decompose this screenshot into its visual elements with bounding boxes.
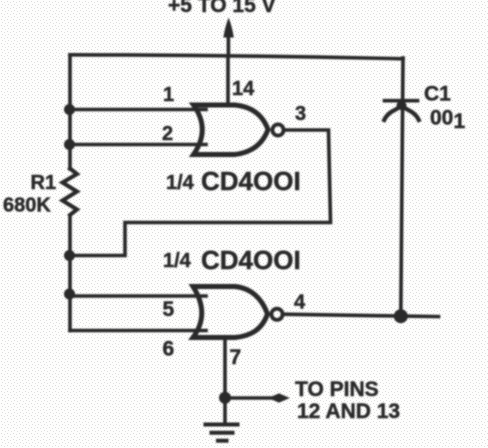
capacitor C1 bottom plate bbox=[384, 106, 419, 120]
svg-text:CD4OOI: CD4OOI bbox=[201, 166, 301, 196]
svg-text:1: 1 bbox=[454, 110, 466, 133]
ground bbox=[206, 425, 238, 441]
wire pin 14 drop bbox=[226, 56, 230, 105]
svg-text:CD4OOI: CD4OOI bbox=[201, 245, 301, 275]
wire input 6 bbox=[70, 329, 206, 333]
svg-text:1: 1 bbox=[163, 84, 174, 106]
node junction dot output bbox=[394, 309, 408, 323]
capacitor C1 center blob bbox=[397, 101, 407, 110]
svg-text:7: 7 bbox=[230, 346, 242, 369]
wire left rail lower bbox=[68, 216, 72, 331]
svg-text:TO PINS: TO PINS bbox=[295, 378, 379, 401]
wire input 2 bbox=[70, 143, 206, 147]
op-amp U1a NOR gate body bbox=[194, 105, 269, 155]
power arrow up bbox=[224, 19, 233, 56]
node junction dot 2 bbox=[64, 139, 75, 150]
svg-text:14: 14 bbox=[232, 78, 255, 100]
wire input 1 bbox=[70, 108, 206, 112]
svg-text:4: 4 bbox=[294, 292, 306, 314]
svg-text:R1: R1 bbox=[31, 172, 57, 194]
svg-text:+5 TO 15 V: +5 TO 15 V bbox=[168, 0, 276, 17]
op-amp U1b output bubble bbox=[271, 309, 282, 320]
svg-text:3: 3 bbox=[295, 103, 306, 125]
svg-text:C1: C1 bbox=[424, 83, 451, 106]
wire arrow to pins bbox=[228, 394, 289, 402]
wire left rail upper bbox=[68, 55, 72, 169]
svg-text:1/4: 1/4 bbox=[163, 250, 192, 272]
wire output 4 bbox=[283, 314, 439, 316]
svg-text:6: 6 bbox=[163, 338, 175, 361]
op-amp U1b NOR gate body bbox=[193, 287, 268, 338]
svg-text:680K: 680K bbox=[3, 195, 51, 217]
capacitor C1 top plate bbox=[385, 99, 418, 103]
resistor R1 bbox=[63, 169, 78, 216]
wire input 5 bbox=[70, 294, 206, 298]
svg-text:1/4: 1/4 bbox=[166, 172, 195, 194]
node junction dot 1 bbox=[64, 104, 75, 115]
wire pin 7 to ground bbox=[223, 337, 227, 423]
gate label 1/4 CD4001 lower bbox=[163, 245, 301, 275]
svg-text:5: 5 bbox=[163, 298, 175, 321]
svg-text:2: 2 bbox=[162, 123, 173, 145]
svg-text:00: 00 bbox=[430, 107, 453, 130]
svg-text:12 AND 13: 12 AND 13 bbox=[297, 400, 400, 423]
node junction dot input 5 bbox=[64, 289, 75, 300]
wire top rail bbox=[70, 55, 403, 59]
op-amp U1a output bubble bbox=[272, 124, 283, 135]
gate label 1/4 CD4001 upper bbox=[166, 166, 301, 196]
wire output 3 to feedback bbox=[70, 130, 331, 256]
node junction dot feedback bbox=[64, 250, 75, 261]
node junction dot ground bbox=[219, 392, 231, 404]
wire right rail bbox=[401, 58, 403, 316]
